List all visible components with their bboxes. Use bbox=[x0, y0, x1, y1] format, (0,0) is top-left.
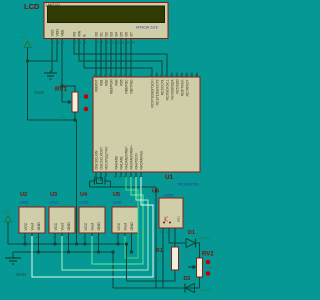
svg-text:RC6/TX/CK: RC6/TX/CK bbox=[181, 79, 185, 97]
svg-text:VCC: VCC bbox=[54, 222, 58, 230]
svg-text:RA1/AN1: RA1/AN1 bbox=[120, 156, 124, 170]
junction VCC-VDD bbox=[26, 59, 29, 62]
svg-text:VCC: VCC bbox=[1, 211, 9, 215]
svg-text:GND: GND bbox=[130, 222, 134, 231]
svg-text:D0: D0 bbox=[95, 32, 99, 37]
svg-text:RA3/AN3/VREF+: RA3/AN3/VREF+ bbox=[130, 145, 134, 170]
svg-text:U2: U2 bbox=[20, 192, 27, 198]
svg-text:RA2/AN2/VREF-: RA2/AN2/VREF- bbox=[125, 146, 129, 170]
wire U3 Vout to RA4 bbox=[62, 177, 148, 270]
svg-text:RA0/AN0: RA0/AN0 bbox=[115, 156, 119, 170]
wire GND down to diode network bbox=[112, 252, 114, 288]
svg-text:RC1/T1OSI/CCP2: RC1/T1OSI/CCP2 bbox=[156, 79, 160, 105]
wire R1 return up to VCC bus bbox=[126, 244, 128, 281]
svg-text:VCC: VCC bbox=[24, 222, 28, 230]
wire VCC feed down to sensor bus bbox=[76, 120, 78, 244]
svg-text:1N4148: 1N4148 bbox=[199, 237, 210, 241]
svg-text:RC3/SCK/SCL: RC3/SCK/SCL bbox=[166, 79, 170, 100]
svg-text:RC7/RX/DT: RC7/RX/DT bbox=[186, 79, 190, 96]
svg-text:RC0/T1OSO/T1CKI: RC0/T1OSO/T1CKI bbox=[151, 79, 155, 107]
junction GND pin bbox=[130, 250, 133, 253]
wire D2 line to GND bbox=[113, 287, 200, 289]
svg-text:D7: D7 bbox=[130, 32, 134, 37]
svg-text:LCD: LCD bbox=[24, 2, 40, 11]
wire U6 pin3 to R1 top bbox=[174, 228, 176, 247]
svg-text:Vout: Vout bbox=[31, 223, 35, 230]
svg-text:10: 10 bbox=[112, 41, 116, 45]
wire crystal caps bbox=[90, 180, 111, 182]
svg-text:GND: GND bbox=[97, 222, 101, 231]
svg-text:VCC: VCC bbox=[21, 36, 29, 40]
wire U5 Vout to RA2 bbox=[125, 177, 138, 258]
wire E to RC0 bbox=[84, 39, 152, 77]
svg-text:U5: U5 bbox=[113, 192, 120, 198]
svg-text:GND: GND bbox=[34, 90, 44, 95]
U4 pin leads bbox=[85, 233, 99, 252]
svg-text:VEE: VEE bbox=[61, 29, 65, 37]
junction R1 return / VCC bus bbox=[125, 242, 128, 245]
junction VCC feed bbox=[75, 242, 78, 245]
svg-text:VDD: VDD bbox=[56, 29, 60, 37]
svg-text:D2: D2 bbox=[184, 276, 191, 282]
wire OSC1 lead bbox=[95, 177, 97, 181]
svg-text:1k: 1k bbox=[61, 115, 65, 119]
wire GND bus bbox=[13, 251, 113, 253]
svg-text:RA4/T0CKI: RA4/T0CKI bbox=[135, 153, 139, 169]
svg-text:VCC: VCC bbox=[84, 222, 88, 230]
wire VCC arrow stem bbox=[7, 222, 9, 244]
wire VSS pin1 to ground bbox=[51, 39, 53, 71]
U3 pin leads bbox=[55, 233, 69, 252]
svg-text:RW: RW bbox=[78, 30, 82, 36]
svg-text:RA5/AN4/SS: RA5/AN4/SS bbox=[140, 151, 144, 169]
svg-text:D3: D3 bbox=[110, 32, 114, 37]
svg-text:OSC2/CLKOUT: OSC2/CLKOUT bbox=[100, 147, 104, 170]
wire RS to RC3 bbox=[74, 39, 167, 77]
svg-text:ADJ: ADJ bbox=[177, 216, 181, 222]
wire VEE pin3 down bbox=[61, 39, 63, 102]
svg-text:RB1: RB1 bbox=[100, 79, 104, 85]
junction VCC pin bbox=[23, 242, 26, 245]
svg-text:U3: U3 bbox=[50, 192, 57, 198]
PIC pin stub RA1/AN1 bbox=[120, 172, 122, 177]
svg-text:11: 11 bbox=[117, 41, 120, 45]
svg-text:Vout: Vout bbox=[61, 223, 65, 230]
U2 pin leads bbox=[25, 233, 39, 252]
svg-text:U4: U4 bbox=[80, 192, 88, 198]
svg-text:LM35: LM35 bbox=[20, 201, 29, 205]
svg-text:Vout: Vout bbox=[91, 223, 95, 230]
wire VCC bus bbox=[8, 243, 127, 245]
potentiometer RV1 body bbox=[72, 92, 78, 112]
svg-text:D4: D4 bbox=[115, 32, 119, 37]
wire VDD pin2 to VCC rail bbox=[28, 39, 58, 61]
svg-text:PIC16F876A: PIC16F876A bbox=[178, 183, 199, 187]
svg-text:13: 13 bbox=[127, 41, 131, 45]
svg-text:U1: U1 bbox=[165, 174, 174, 181]
wire U6 pin2 to D1 anode bbox=[169, 228, 186, 243]
wire RV2 bottom to D2 bbox=[199, 277, 201, 288]
wire crystal return down right bbox=[155, 187, 157, 288]
wire VCC rail horizontal to RV1 bottom bbox=[28, 119, 77, 121]
wire caps down bbox=[90, 181, 111, 187]
svg-text:RC2/CCP1: RC2/CCP1 bbox=[161, 79, 165, 95]
VCC power symbol top-left bbox=[24, 41, 31, 48]
svg-text:12: 12 bbox=[122, 41, 126, 45]
svg-text:RV1: RV1 bbox=[55, 86, 67, 93]
RV2 interactive buttons bbox=[206, 260, 211, 265]
wire VEE branch to RV1 top bbox=[62, 86, 75, 92]
svg-text:RB5: RB5 bbox=[120, 79, 124, 85]
PIC pin stub extra 19 bbox=[191, 73, 193, 78]
wire crystal ground return bbox=[90, 186, 157, 188]
diode D2 bbox=[185, 284, 195, 293]
svg-text:RB4: RB4 bbox=[115, 79, 119, 85]
resistor R1 body bbox=[172, 247, 179, 270]
wire D1 cathode to RV2 top bbox=[196, 243, 200, 258]
junction GND bus end bbox=[111, 250, 114, 253]
svg-text:RC4/SDI/SDA: RC4/SDI/SDA bbox=[171, 79, 175, 100]
RV1 wiper arrow bbox=[62, 101, 69, 103]
RV2 wiper arrow bbox=[188, 266, 193, 268]
ground symbol near LCD bbox=[44, 73, 57, 79]
ground symbol bottom-left bbox=[5, 258, 21, 264]
svg-text:LM335: LM335 bbox=[163, 194, 173, 198]
PIC pin stub RA5/AN4/SS bbox=[140, 172, 142, 177]
PIC pin stub RC1 bbox=[156, 73, 158, 78]
svg-text:VSS: VSS bbox=[51, 29, 55, 37]
U5 pin leads bbox=[118, 233, 132, 252]
svg-text:R1: R1 bbox=[156, 248, 163, 254]
svg-text:LM35: LM35 bbox=[80, 201, 89, 205]
svg-text:Vout: Vout bbox=[124, 223, 128, 230]
svg-text:RB6/PGC: RB6/PGC bbox=[125, 79, 129, 94]
PIC pin stub RC5 bbox=[176, 73, 178, 78]
svg-text:D5: D5 bbox=[120, 32, 124, 37]
VCC power symbol bottom-left bbox=[5, 216, 12, 223]
junction GND pin bbox=[67, 250, 70, 253]
svg-text:GND: GND bbox=[16, 272, 26, 277]
junction GND pin bbox=[37, 250, 40, 253]
wire RW to RC2 bbox=[79, 39, 162, 77]
PIC pin stub OSC2/CLKOUT bbox=[100, 172, 102, 177]
svg-text:D1: D1 bbox=[188, 230, 195, 236]
svg-text:GND: GND bbox=[37, 222, 41, 231]
PIC pin stub RC6 bbox=[181, 73, 183, 78]
svg-text:RB2: RB2 bbox=[105, 79, 109, 85]
svg-text:14: 14 bbox=[132, 41, 136, 45]
junction VCC pin bbox=[116, 242, 119, 245]
wire U6 pin1 to GND line bbox=[162, 228, 164, 288]
svg-text:RB7/PGD: RB7/PGD bbox=[130, 79, 134, 94]
junction VEE branch bbox=[60, 84, 63, 87]
svg-text:D2: D2 bbox=[105, 32, 109, 37]
PIC pin stub RA4/T0CKI bbox=[135, 172, 137, 177]
PIC pin stub RA0/AN0 bbox=[115, 172, 117, 177]
svg-text:LM35: LM35 bbox=[50, 201, 59, 205]
svg-text:OSC1/CLKIN: OSC1/CLKIN bbox=[95, 150, 99, 170]
PIC pin stub extra 20 bbox=[196, 73, 198, 78]
svg-text:1N4148: 1N4148 bbox=[200, 289, 211, 293]
PIC pin stub RA3/AN3/VREF+ bbox=[130, 172, 132, 177]
wire U2 Vout to RA5 bbox=[32, 177, 153, 277]
svg-text:D1: D1 bbox=[100, 32, 104, 37]
svg-text:RB0/INT: RB0/INT bbox=[95, 79, 99, 91]
PIC pin stub RC4 bbox=[171, 73, 173, 78]
wire RV1 bottom lead bbox=[74, 112, 76, 120]
svg-text:RS: RS bbox=[73, 31, 77, 37]
PIC pin stub MCLR/Vpp/THV bbox=[105, 172, 107, 177]
LCD module LCD1 LM016L body bbox=[44, 3, 168, 39]
wire U4 Vout to RA3 bbox=[92, 177, 143, 264]
wire VCC rail vertical bbox=[27, 48, 29, 121]
PIC pin stub RA2/AN2/VREF- bbox=[125, 172, 127, 177]
RV1 interactive buttons bbox=[84, 94, 89, 99]
diode D1 bbox=[186, 239, 196, 248]
wire OSC2 lead bbox=[100, 177, 102, 181]
svg-text:U6: U6 bbox=[152, 189, 159, 195]
wire R1 bottom return bbox=[127, 270, 176, 281]
svg-text:LM35: LM35 bbox=[113, 201, 122, 205]
potentiometer RV2 body bbox=[197, 258, 203, 277]
svg-text:GND: GND bbox=[67, 222, 71, 231]
PIC pin stub OSC1/CLKIN bbox=[95, 172, 97, 177]
LCD screen bbox=[48, 6, 165, 23]
wires D0-D7 to RB0-RB7 bbox=[95, 39, 97, 77]
junction VCC pin bbox=[83, 242, 86, 245]
sensor U6 LM335 body bbox=[159, 198, 183, 228]
svg-text:RV2: RV2 bbox=[202, 252, 214, 258]
svg-text:2k2: 2k2 bbox=[156, 258, 162, 262]
U6 internal zener symbol bbox=[165, 217, 168, 223]
svg-text:MCLR/Vpp/THV: MCLR/Vpp/THV bbox=[105, 146, 109, 170]
junction VCC pin bbox=[53, 242, 56, 245]
svg-text:10k: 10k bbox=[208, 266, 214, 270]
op PIC microcontroller U1 body bbox=[93, 77, 200, 172]
junction RV1 bottom / VCC rail bbox=[73, 118, 76, 121]
junction GND pin bbox=[97, 250, 100, 253]
svg-text:HITACHI 2x16: HITACHI 2x16 bbox=[136, 26, 158, 30]
svg-text:RC5/SDO: RC5/SDO bbox=[176, 79, 180, 94]
PIC pin stub RC7 bbox=[186, 73, 188, 78]
svg-text:D6: D6 bbox=[125, 32, 129, 37]
svg-text:VCC: VCC bbox=[117, 222, 121, 230]
svg-text:RB3/PGM: RB3/PGM bbox=[110, 79, 114, 94]
